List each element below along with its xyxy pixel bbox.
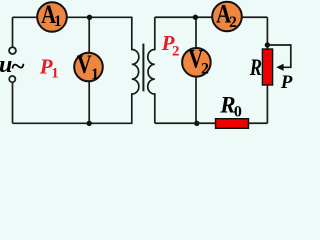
wire V1 branch vertical	[88, 17, 90, 123]
svg-text:R: R	[249, 54, 262, 81]
node junction wiper tap	[265, 42, 270, 47]
wire secondary top horizontal	[155, 16, 268, 18]
node junction bottom-left	[87, 121, 92, 126]
svg-text:1: 1	[91, 66, 99, 83]
transformer secondary winding L2	[148, 17, 155, 123]
svg-text:u: u	[0, 52, 12, 78]
wire primary top horizontal	[13, 16, 133, 18]
transformer core	[142, 44, 144, 92]
svg-text:1: 1	[54, 13, 62, 30]
terminal upper (open circle)	[9, 47, 16, 54]
wire right vertical (A2 to rheostat)	[266, 17, 268, 49]
voltmeter V1	[74, 51, 103, 83]
svg-text:2: 2	[172, 43, 180, 59]
rheostat R body	[262, 49, 272, 85]
resistor R0 body	[216, 119, 249, 129]
node junction bottom-right	[194, 121, 199, 126]
wire left vertical upper (source to top wire)	[12, 17, 14, 46]
svg-text:2: 2	[201, 60, 209, 77]
wire left vertical lower	[12, 82, 14, 123]
svg-text:0: 0	[234, 103, 242, 120]
wiper wire and arrow	[267, 45, 290, 67]
svg-text:1: 1	[51, 65, 59, 81]
wire secondary bottom horizontal	[155, 122, 268, 124]
ammeter A2	[212, 1, 242, 32]
ammeter A1	[37, 1, 67, 32]
wiper arrowhead P	[276, 64, 283, 71]
svg-text:2: 2	[229, 14, 237, 31]
svg-text:~: ~	[12, 54, 25, 81]
voltmeter V2	[182, 45, 211, 77]
wire right vertical lower (R to bottom)	[266, 85, 268, 123]
node junction top-right	[193, 15, 198, 20]
node junction top-left	[87, 15, 92, 20]
wire primary bottom horizontal	[13, 122, 133, 124]
wire V2 branch vertical	[195, 17, 197, 123]
transformer primary winding L1	[132, 17, 139, 123]
svg-text:P: P	[280, 72, 293, 93]
terminal lower (open circle)	[9, 76, 15, 82]
svg-text:V: V	[77, 51, 92, 80]
